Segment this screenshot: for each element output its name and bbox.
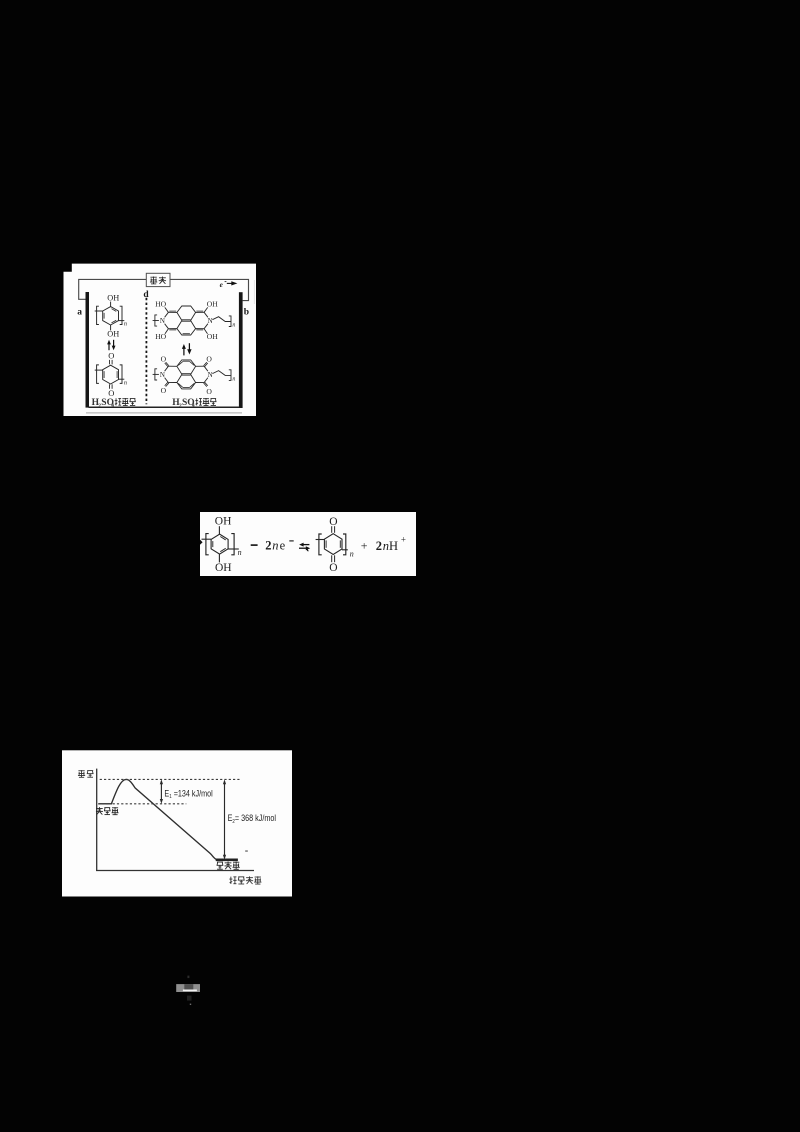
svg-text:H: H — [389, 539, 398, 553]
svg-text:O: O — [329, 516, 337, 528]
equilibrium arrows left — [108, 343, 110, 350]
axis label reaction progress — [230, 877, 232, 884]
svg-text:n: n — [238, 548, 242, 557]
svg-text:N: N — [208, 317, 213, 325]
svg-text:O: O — [108, 388, 114, 398]
equilibrium arrows right — [183, 348, 185, 355]
bond OH-ring — [110, 302, 112, 307]
load box (fuzai) — [146, 273, 170, 286]
label product — [217, 861, 223, 863]
svg-text:4: 4 — [111, 403, 114, 409]
eq q O bottom — [331, 555, 333, 562]
E2 arrow — [224, 782, 226, 858]
svg-text:OH: OH — [215, 562, 232, 574]
equilibrium arrows — [301, 544, 309, 546]
bracket hq left — [97, 306, 99, 324]
svg-text:OH: OH — [107, 330, 119, 339]
faint fraction artifact — [176, 984, 200, 992]
eq hq backbone — [202, 538, 212, 540]
svg-text:b: b — [244, 308, 249, 318]
bracket q right — [120, 365, 122, 384]
small speck — [245, 850, 248, 852]
eq hq ring — [211, 534, 228, 554]
svg-text:n: n — [124, 321, 127, 328]
svg-text:E1 =134 kJ/mol: E1 =134 kJ/mol — [164, 788, 212, 800]
svg-text:n: n — [124, 379, 127, 386]
electrode b — [239, 292, 243, 408]
E1 arrow — [160, 782, 162, 802]
svg-text:E2= 368 kJ/mol: E2= 368 kJ/mol — [228, 813, 276, 825]
grey shadow line — [86, 412, 242, 414]
reaction curve — [98, 779, 216, 859]
svg-text:+: + — [361, 539, 368, 553]
e- arrow — [227, 282, 232, 284]
svg-text:N: N — [208, 371, 213, 379]
svg-text:2: 2 — [265, 538, 271, 552]
bracket q left — [97, 365, 99, 384]
cell diagram white panel — [64, 264, 257, 416]
cell bottom line — [89, 406, 240, 408]
electrode a — [86, 292, 90, 408]
svg-text:O: O — [329, 562, 337, 574]
svg-text:4: 4 — [192, 403, 195, 409]
svg-text:a: a — [77, 308, 82, 318]
svg-text:n: n — [232, 323, 235, 329]
separator dashed line — [145, 298, 147, 405]
svg-text:O: O — [161, 386, 167, 395]
wire right — [170, 279, 249, 300]
svg-text:n: n — [383, 539, 389, 553]
diimide molecule core — [168, 360, 204, 366]
hydroquinone OH bottom — [110, 325, 112, 330]
svg-text:HO: HO — [155, 299, 166, 308]
quinone ring — [103, 365, 119, 384]
svg-text:OH: OH — [107, 294, 119, 303]
svg-text:OH: OH — [207, 332, 218, 341]
hydroquinone ring — [103, 307, 119, 325]
backbone bonds q — [95, 369, 103, 371]
tetraol molecule core — [168, 306, 204, 312]
svg-text:n: n — [272, 538, 278, 552]
axis label energy — [78, 770, 84, 772]
svg-text:OH: OH — [215, 516, 232, 528]
label reactant — [96, 807, 103, 809]
left-edge arrowhead — [200, 540, 203, 545]
svg-text:n: n — [232, 376, 235, 382]
svg-text:n: n — [350, 550, 354, 559]
svg-text:O: O — [108, 351, 114, 361]
eq q backbone — [316, 539, 325, 541]
svg-text:+: + — [401, 534, 406, 544]
eq hq brackets — [206, 534, 209, 555]
faint right line — [253, 280, 255, 304]
quinone O bottom — [109, 384, 111, 389]
svg-text:O: O — [206, 387, 212, 396]
eq q ring — [324, 534, 342, 555]
eq q brackets — [319, 534, 322, 555]
svg-text:OH: OH — [207, 299, 218, 308]
bracket hq right — [120, 306, 122, 324]
backbone bonds hq — [95, 310, 103, 312]
svg-text:O: O — [206, 355, 212, 364]
svg-text:N: N — [160, 371, 165, 379]
wire left — [79, 279, 147, 299]
dashed top line — [100, 778, 241, 780]
eq hq OH bottom — [218, 554, 220, 562]
minus 2ne- — [251, 544, 258, 546]
svg-text:2: 2 — [376, 539, 382, 553]
energy diagram white panel — [62, 750, 292, 896]
x axis — [96, 870, 254, 872]
y axis — [96, 769, 98, 871]
dashed mid line — [100, 803, 187, 805]
svg-text:N: N — [160, 317, 165, 325]
equation white panel — [200, 512, 416, 576]
product plateau bold — [216, 858, 238, 861]
svg-text:e: e — [280, 538, 286, 552]
